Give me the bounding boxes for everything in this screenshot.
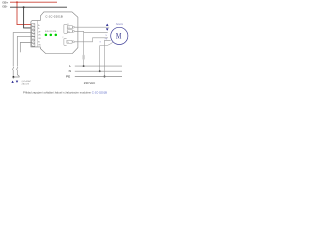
svg-text:F2: F2 [68,31,70,33]
wire B to L feed [75,31,84,66]
motor M1 circle [111,27,128,44]
LED D3 [55,34,58,37]
wire bus- (dark horizontal) [10,6,67,8]
node dot on PE line [104,76,106,78]
svg-text:PE: PE [66,75,70,79]
mains N line [75,70,122,72]
arrow down (motor direction) [106,28,109,30]
fuse on L feed [82,55,84,60]
bracket group output terminals [64,24,67,33]
svg-text:B+: B+ [38,25,40,27]
wire button2 branch [17,36,31,66]
wire S2 bottom jog [13,70,19,77]
svg-text:RUN CPU STA: RUN CPU STA [45,30,57,33]
wire common input stub [20,43,31,53]
screw circle T3 [73,41,75,43]
node dot common buttons [12,76,14,78]
mains PE line [75,76,122,78]
module U1 C-JC-0201B octagon body with terminal housing [31,12,78,54]
wire button1 branch [13,33,31,67]
wire T3 to motor N [75,38,108,42]
svg-text:GB+: GB+ [2,0,8,4]
svg-text:žaluzie: žaluzie [115,24,124,26]
screw circle T2 [73,30,75,32]
wire bus+ (red horizontal) [10,1,57,3]
svg-text:L: L [69,64,71,68]
node junction on dark bus [23,6,25,8]
svg-text:F1: F1 [68,27,70,29]
wire motor bottom to N line [100,42,113,71]
svg-text:ŽALUZIÍ: ŽALUZIÍ [22,83,30,86]
terminal screw slots [32,24,34,46]
node junction on red bus [16,1,18,3]
svg-text:M: M [116,32,122,41]
terminal T1 screw [32,24,35,47]
wire dark branch down to pin2 [24,7,32,28]
legend arrow down [16,81,18,83]
svg-text:230 VAC: 230 VAC [84,81,95,85]
pin labels [38,25,41,47]
terminal housing divider [36,20,38,47]
legend arrow up [11,81,13,83]
wire motor PE down to PE line [105,40,111,76]
svg-text:Příklad zapojení ovládání žalu: Příklad zapojení ovládání žaluzií s žalu… [23,91,107,95]
mains L line [75,65,122,67]
svg-text:UP: UP [38,31,40,33]
screw circle T1 [73,26,75,28]
svg-text:N: N [69,69,71,73]
wire common stub [12,77,14,79]
svg-text:GB-: GB- [2,5,7,9]
node dot on L line [83,65,85,67]
wire C motor-down phase [84,31,108,33]
node dot on N line [99,70,101,72]
switch S2 blade [16,67,18,70]
terminal box up-output [67,26,72,29]
wire S1 bottom [12,70,14,77]
bracket group N terminal [64,38,67,45]
LED D1 [45,34,48,37]
wire A motor-up phase [75,26,110,28]
LED D2 [50,34,53,37]
wire red branch down to pin1 [17,2,32,24]
terminal box N [67,40,72,43]
terminal box down-output [67,30,72,33]
switch S1 blade [12,67,14,70]
svg-text:C-JC-0201B: C-JC-0201B [45,14,63,18]
arrow up (motor direction) [106,24,109,26]
